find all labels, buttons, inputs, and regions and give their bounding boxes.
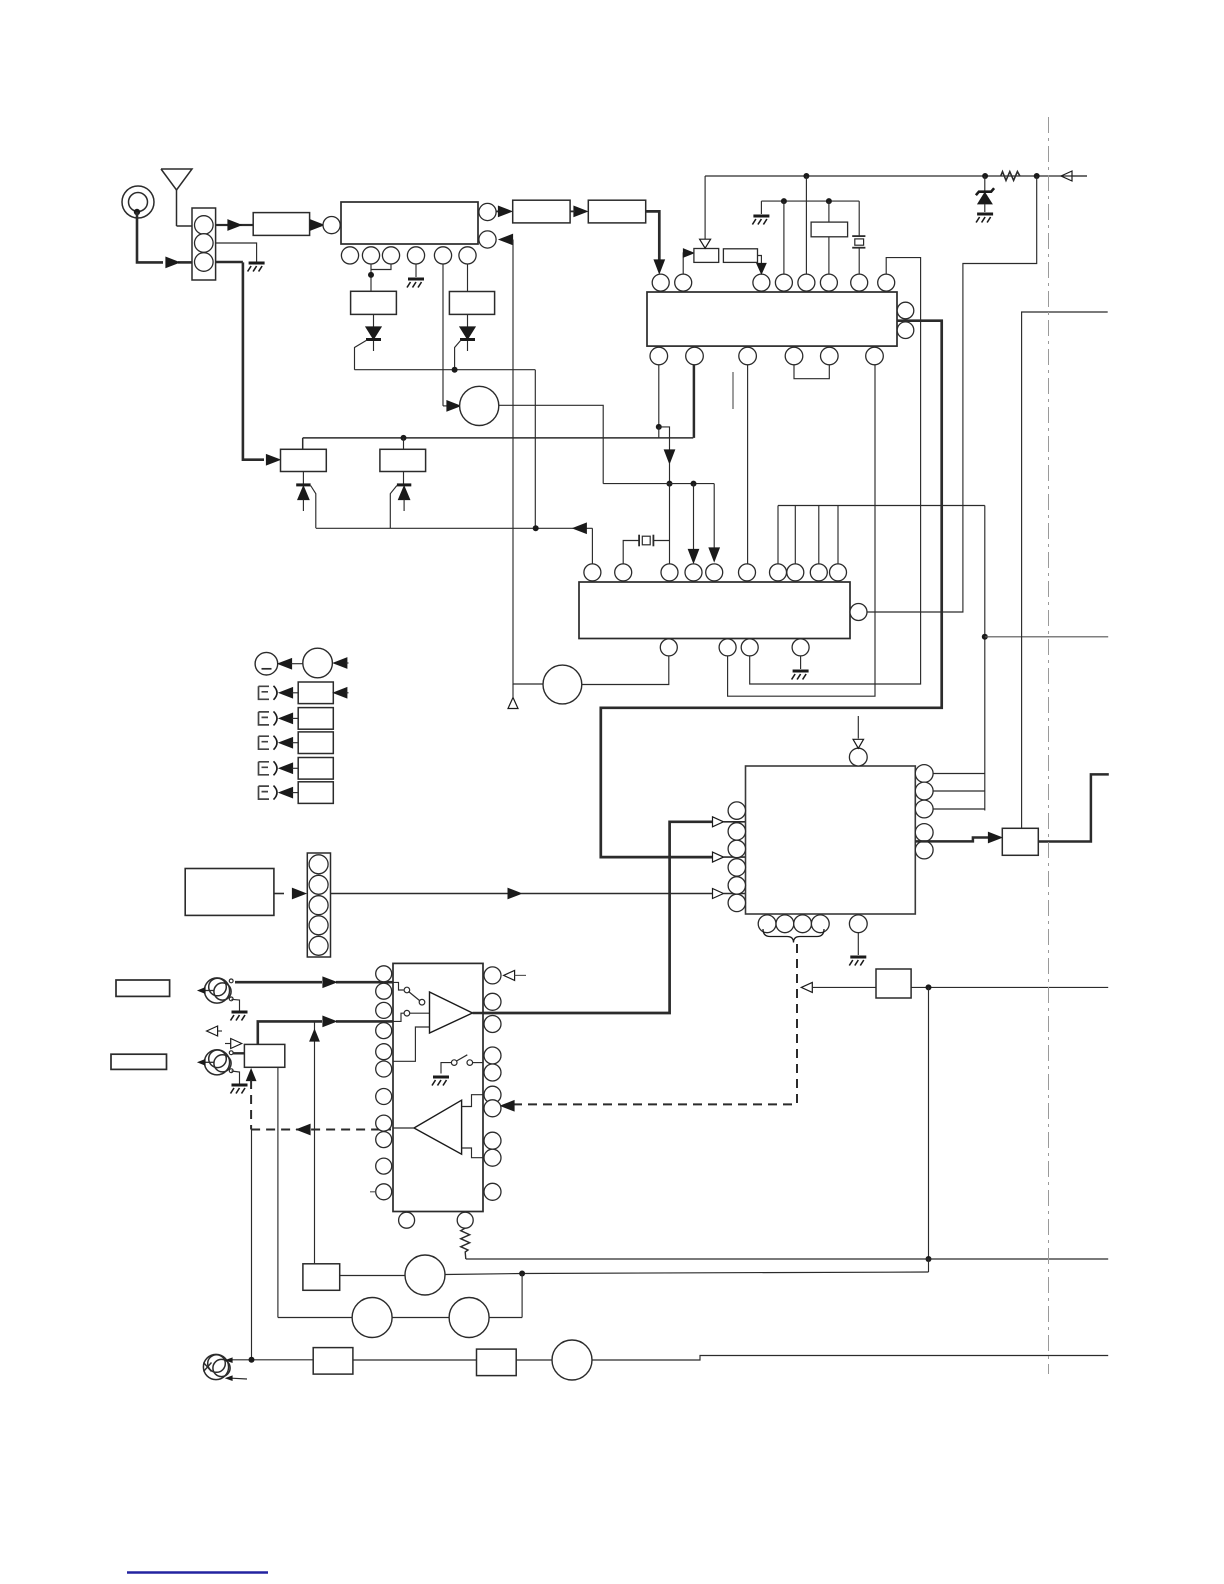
key icon glyph 4 <box>259 762 270 775</box>
wire U2 bottom pin1 down <box>658 365 660 427</box>
U2 top pin 3 <box>753 274 770 291</box>
U4 right pin 3 <box>915 800 933 818</box>
U1 bottom pin 1 <box>341 247 358 264</box>
wire row3 continue <box>521 893 712 895</box>
A2 input wire <box>393 1127 414 1129</box>
wire AGC rail corner down <box>534 370 536 528</box>
U2 top pin 6 <box>820 274 837 291</box>
U2 top pin 4 <box>775 274 792 291</box>
arrowhead into U2 pin1 <box>654 260 664 273</box>
rail2 left leg <box>760 201 762 214</box>
thick wire B9 top to U5 <box>258 1021 322 1044</box>
open arrow marker left <box>207 1026 218 1036</box>
wire dot down to X5 <box>521 1274 523 1318</box>
U5 right pin 8 <box>484 1132 501 1149</box>
U3 right pin <box>850 604 867 621</box>
open arrow power input <box>1061 171 1072 181</box>
arrowhead into U1 pin <box>311 220 324 230</box>
junction dot x659 <box>656 424 662 430</box>
junction dot rail2 a <box>781 198 787 204</box>
system control IC U4 <box>746 766 916 914</box>
wire CN1 pin1 to FL1 <box>216 224 228 226</box>
RCA jack J2 <box>204 978 229 1003</box>
U3 top pin 10 <box>830 564 847 581</box>
U5 left pin 10 <box>376 1158 392 1174</box>
wire power input stub <box>1072 175 1087 177</box>
U5 left pin 6 <box>376 1061 392 1077</box>
wire J1 to CN1 pin3 <box>137 212 163 262</box>
U1 bottom pin 3 <box>382 247 399 264</box>
junction dot rail1 right <box>1034 173 1040 179</box>
U3 top pin 5 <box>706 564 723 581</box>
VD1 diagonal to VT line <box>311 486 316 529</box>
rail y438 into T1 <box>302 438 304 449</box>
arrow into VR1 <box>334 658 347 668</box>
U4 right pin 5 <box>915 841 933 859</box>
U4 right pin 4 <box>915 824 933 842</box>
RCA jack J3 <box>204 1050 229 1075</box>
U2 top pin 8 <box>878 274 895 291</box>
dashed remote line vertical <box>796 944 798 1104</box>
arrow into key icon 4 <box>280 763 293 773</box>
arrowhead into U2 top pin3 <box>757 264 766 274</box>
arrowhead mid row3 <box>508 889 521 899</box>
U4 bottom pin 3 <box>794 915 812 933</box>
RCA jack J5 <box>203 1354 228 1379</box>
arrowhead into T1 <box>267 455 280 465</box>
ceramic filter FL2 <box>351 291 397 314</box>
bus corner down x985 <box>984 506 986 811</box>
A2 upper output step <box>462 1095 484 1107</box>
IF filter FL5 <box>588 200 645 223</box>
offpage triangle marker <box>508 698 518 709</box>
antenna connector CN1 <box>192 208 216 280</box>
resistor R2 <box>461 1228 470 1259</box>
arrow into key icon 5 <box>280 788 293 798</box>
label box L2 <box>111 1054 167 1069</box>
wire CN2 to U4 row3 <box>331 893 510 895</box>
U5 right pin 9 <box>484 1149 501 1166</box>
long wire x1021 supply <box>1022 312 1108 828</box>
D2 gate diagonal <box>455 340 461 370</box>
wire corner to U3 pin5 <box>713 484 715 549</box>
U3 top pin 2 <box>615 564 632 581</box>
ceramic filter FL3 <box>449 292 494 315</box>
ground U3 bottom pin4 <box>800 656 802 669</box>
wire X6 to right edge <box>592 1356 1108 1361</box>
wire buffer return to U1 pin B <box>509 239 513 241</box>
A1 feedback path <box>393 1027 430 1061</box>
crystal Y1 <box>852 235 865 237</box>
arrow into key icon 2 <box>280 713 293 723</box>
U5 left pin 4 <box>376 1023 392 1039</box>
wire CN1 pin2 to ground <box>216 243 257 262</box>
wire B9b output to right edge <box>911 986 1108 988</box>
U2 bottom pin 2 <box>686 347 704 365</box>
long wire U1 pinB buffer vertical x513 <box>513 240 543 685</box>
CN1 pin 2 <box>195 234 214 253</box>
wire B9-col to X4 <box>278 1317 352 1319</box>
filter box FB1 <box>811 222 848 237</box>
A2 lower output step <box>462 1148 484 1158</box>
junction dot IF y483 <box>667 481 673 487</box>
U3 top pin 6 <box>739 564 756 581</box>
wire rail2 to filter FB1 <box>828 201 830 222</box>
arrow row0 <box>279 659 292 669</box>
wire U1 pin3 jog <box>371 264 391 270</box>
small box B9b <box>876 969 911 998</box>
mic box B11 <box>313 1348 353 1375</box>
CN2 pin 2 <box>309 875 328 894</box>
U2 bottom pin 4 <box>785 347 803 365</box>
wire jog to x669 <box>659 427 670 451</box>
U1 bottom pin 2 <box>362 247 379 264</box>
U2 bottom link pins 4-5 <box>794 365 829 379</box>
tuning coil box T1 <box>281 449 327 471</box>
U2 top pin 7 <box>851 274 868 291</box>
U4 left pin 1 <box>728 802 745 819</box>
interface box B8 <box>1002 828 1038 855</box>
U5 left pin 9 <box>376 1132 392 1148</box>
open arrow marker into B9 <box>231 1039 242 1049</box>
RF amp IC U1 <box>341 202 478 244</box>
diode D1 <box>373 314 375 351</box>
CN1 pin 3 <box>195 253 214 272</box>
coax antenna jack J1 <box>122 186 154 218</box>
U3 top pin 7 <box>770 564 787 581</box>
op-amp A1 <box>430 992 473 1033</box>
display unit box B5 <box>185 869 274 916</box>
U5 right pin 10 <box>484 1183 501 1200</box>
U4 left pin 5 <box>728 877 745 894</box>
record box B9 <box>244 1044 284 1067</box>
tape eq box B10 <box>303 1264 340 1291</box>
key switch box K1 <box>298 682 333 704</box>
U2 bottom pin 6 <box>866 347 884 365</box>
arrowhead into VCO <box>447 401 460 411</box>
U4 left pin 6 <box>728 894 745 911</box>
wire X5 to dot col <box>489 1317 522 1319</box>
long vertical x928 <box>928 987 930 1259</box>
U5 right pin 6 <box>484 1086 501 1103</box>
mic box B12 <box>477 1349 517 1376</box>
wire U2 bottom pin3 to U3 pin6 <box>747 365 749 564</box>
CN2 pin 3 <box>309 896 328 915</box>
U3 top pin 8 <box>787 564 804 581</box>
U2 bottom pin 3 <box>739 347 757 365</box>
IF distribution line y483 <box>603 483 714 485</box>
ground wire J2 <box>231 999 239 1010</box>
U5 bottom pin 2 <box>457 1212 473 1228</box>
wire VCO output to PLL <box>499 405 603 483</box>
wire U1 pin2 to FL2 <box>370 264 372 291</box>
U5 left pin 11 <box>376 1184 392 1200</box>
brace under U4 data pins <box>763 929 824 943</box>
wire U4 right pin2 <box>933 790 985 792</box>
ground U1 pin4 <box>408 278 424 281</box>
supply rail1 y176 <box>705 175 1087 177</box>
U1 right pin A <box>479 203 496 220</box>
stub dot to rail y438 <box>658 427 660 438</box>
arrowhead into U3 pin5 <box>709 548 719 561</box>
ground rail2 <box>753 215 769 218</box>
wire X4 to X5 <box>392 1317 449 1319</box>
PLL IC U3 <box>579 582 850 639</box>
wire X2 to U3 bottom pin1 <box>582 656 669 685</box>
zener diode ZD1 <box>984 176 986 192</box>
U5 right pin 3 <box>484 1016 501 1033</box>
bandpass filter FL1 <box>253 213 309 236</box>
arrowhead into U5 right pin <box>501 1101 514 1111</box>
U3 pins7-10 bus verticals <box>777 506 779 565</box>
wire x669 to dot483 <box>669 463 671 484</box>
U5 right pin 1 <box>484 967 501 984</box>
vertical x314 tape amp to U5 <box>314 1021 316 1263</box>
CN2 pin 1 <box>309 855 328 874</box>
wire U3 pin1 to VT line <box>591 528 593 564</box>
thick wire B8 output <box>1038 774 1109 841</box>
crystal Y2 <box>638 535 640 547</box>
rail y438 into T2 <box>403 438 405 449</box>
U3 top pin 1 <box>584 564 601 581</box>
oscillator circle X2 <box>543 665 582 704</box>
diode D2 <box>467 314 469 351</box>
wire B10 to X3 <box>340 1275 405 1277</box>
U4 top pin <box>849 748 867 766</box>
arrowhead FL4 to FL5 <box>574 206 587 216</box>
open arrowhead into U4 row2 <box>713 852 724 862</box>
U5 input2 wire <box>393 1013 404 1021</box>
U3 bottom pin 3 <box>741 639 758 656</box>
U1 bottom pin 6 <box>459 247 476 264</box>
thick wire U4 pins45 to B8 <box>915 838 988 842</box>
wire U3 right pin to supply <box>867 176 1037 612</box>
U4 right pin 1 <box>915 765 933 783</box>
IF filter FL4 <box>513 200 570 223</box>
U5 left pin 2 <box>376 983 392 999</box>
thick bus U2 right to U4 <box>601 321 942 857</box>
volume circle VR1 <box>303 648 333 678</box>
page split dash-dot line <box>1048 117 1050 1374</box>
U4 left pin 3 <box>728 840 745 857</box>
U3 bottom pin 2 <box>719 639 736 656</box>
wire BA2 to U2 top pin3 <box>758 256 762 265</box>
U1 bottom pin 5 <box>434 247 451 264</box>
junction dot rail1 x806 <box>803 173 809 179</box>
wire U1 pin5 to VCO <box>442 264 444 406</box>
D1 gate diagonal <box>355 340 368 370</box>
arrowhead on J2 wire <box>323 977 336 987</box>
arrowhead into FL1 <box>228 220 241 230</box>
arrowhead mid IF wire <box>665 450 675 463</box>
key icon glyph 1 <box>259 686 270 699</box>
wire U1 pin4 to ground <box>415 264 417 277</box>
crystal circuit U3 pin2 <box>623 541 639 565</box>
wire AGC rail y370 <box>355 369 536 371</box>
arrowhead into BA1 <box>684 249 694 257</box>
U5 mute switch S2 <box>451 1060 457 1066</box>
tuning coil box T2 <box>380 449 426 471</box>
wire FB1 to U2 top pin6 <box>828 237 830 274</box>
varactor VD1 <box>302 472 304 485</box>
U4 left pin 4 <box>728 859 745 876</box>
supply rail y438 <box>303 437 694 439</box>
op-amp A2 <box>414 1100 462 1154</box>
U2 right pin B <box>897 322 914 339</box>
ground symbol U3 <box>793 670 809 673</box>
open arrow into B9b <box>801 982 812 992</box>
junction dot rail y438 T2 <box>401 435 407 441</box>
wire FL5 to U2 pin1 (thick) <box>646 211 660 262</box>
U5 bottom pin 1 <box>399 1212 415 1228</box>
motor circle X3 <box>405 1255 445 1295</box>
U5 left pin 7 <box>376 1089 392 1105</box>
display connector CN2 <box>307 853 330 957</box>
junction dot J5 wire <box>249 1357 255 1363</box>
wire J5 to B11 <box>232 1359 314 1361</box>
VD2 diagonal to VT line <box>390 486 397 529</box>
U3 top pin 9 <box>810 564 827 581</box>
arrowhead into CN2 <box>293 889 306 899</box>
wire U4 right pin1 <box>933 773 985 775</box>
key switch box K3 <box>298 732 333 754</box>
motor circle X5 <box>449 1298 489 1338</box>
U1 input pin <box>323 217 340 234</box>
wire Y2 to x669 <box>653 540 669 542</box>
arrow into K1 right <box>334 688 347 698</box>
A1 output wire <box>473 1012 484 1015</box>
junction dot row A <box>519 1271 525 1277</box>
U5 right pin 2 <box>484 993 501 1010</box>
U5 left pin 5 <box>376 1044 392 1060</box>
arrowhead on VT line <box>573 523 586 533</box>
thick wire CN1 pin3 down to T1 <box>216 261 243 264</box>
ground J2 <box>232 1011 248 1014</box>
U2 top pin 2 <box>675 274 692 291</box>
wire U4 right pin3 <box>933 808 985 810</box>
junction dot VT line <box>533 525 539 531</box>
U4 bottom pin 2 <box>776 915 794 933</box>
U2 bottom pin 1 <box>650 347 668 365</box>
U2 bottom pin 5 <box>821 347 839 365</box>
CN1 pin 1 <box>195 216 214 235</box>
ground wire U4 pin5 <box>857 933 859 955</box>
VT tuning line y528 <box>316 527 592 529</box>
antenna ANT1 <box>161 169 192 190</box>
U3 bottom pin 4 <box>792 639 809 656</box>
arrowhead on dashed wire <box>297 1125 310 1135</box>
U5 left pin 3 <box>376 1002 392 1018</box>
junction dot x928 <box>926 984 932 990</box>
thick stub J3 to B9 <box>233 1052 244 1054</box>
U5 input switch S1 <box>393 982 404 990</box>
wire FL1 to U1 <box>310 224 312 226</box>
rail2 right leg to crystal <box>858 201 860 236</box>
VCO oscillator circle X1 <box>460 386 499 425</box>
arrowhead on B9 wire <box>323 1016 336 1026</box>
junction dot U1 pin2/pin3 <box>368 272 374 278</box>
ground wire J3 <box>231 1071 239 1084</box>
thick bus U5 output to U4 <box>483 822 712 1013</box>
vertical x251 to J5 line <box>251 1130 253 1360</box>
CN2 pin 4 <box>309 916 328 935</box>
U2 right pin A <box>897 302 914 319</box>
U2 top pin 5 <box>798 274 815 291</box>
U3 top pin 3 <box>661 564 678 581</box>
U4 bottom pin 4 <box>811 915 829 933</box>
wire rail1 to U2 top pin5 <box>805 176 807 274</box>
wire B11 to B12 <box>353 1359 477 1361</box>
wire into VCO <box>443 405 448 407</box>
wire U3 bottom pin2 path <box>728 365 875 696</box>
short floating segment x733 <box>732 372 734 409</box>
U4 bottom pin 1 <box>758 915 776 933</box>
U5 right pin 4 <box>484 1047 501 1064</box>
bus horizontal y505 <box>778 505 985 507</box>
U5 right pin 5 <box>484 1064 501 1081</box>
U5 left pin 1 <box>376 966 392 982</box>
arrow into key icon 1 <box>280 688 293 698</box>
wire Y1 to U2 top pin7 <box>858 248 860 274</box>
U3 top pin 4 <box>685 564 702 581</box>
key switch box K4 <box>298 758 333 780</box>
supply rail2 y201 <box>761 200 859 202</box>
U2 top pin 1 <box>652 274 669 291</box>
ground U4 <box>850 956 866 959</box>
trimmer box BA2 <box>723 249 757 263</box>
wire U1 right pin A to FL4 <box>496 210 499 212</box>
arrow up into B9 bottom <box>247 1070 256 1081</box>
arrowhead into U1 pin B <box>500 235 513 245</box>
junction dot D2 rail <box>452 367 458 373</box>
audio amplifier IC U5 <box>393 963 483 1211</box>
wire B9 bottom down to X4 <box>277 1067 279 1317</box>
motor circle X6 <box>552 1340 592 1380</box>
open arrow supply into BA1 <box>704 176 706 240</box>
U4 right pin 2 <box>915 782 933 800</box>
arrowhead into B8 <box>989 833 1002 843</box>
junction dot rail1 zener <box>982 173 988 179</box>
U4 bottom pin 5 <box>849 915 867 933</box>
motor circle X4 <box>352 1298 392 1338</box>
ground J3 <box>232 1084 248 1087</box>
arrowhead into FL4 <box>499 206 512 216</box>
open arrowhead into U4 row1 <box>713 817 724 827</box>
wire R2 to right edge <box>466 1258 1108 1260</box>
arrow up on x314 <box>310 1030 319 1041</box>
wire x928 jog <box>928 1259 930 1272</box>
key icon glyph 2 <box>259 712 270 725</box>
open arrowhead into U4 row3 <box>713 889 724 899</box>
U1 right pin B <box>479 231 496 248</box>
wire dot to U3 pin4 <box>693 484 695 551</box>
junction dot rail2 b <box>826 198 832 204</box>
U3 bottom pin 1 <box>660 639 677 656</box>
earphone jack icon row0 <box>255 652 278 675</box>
dashed remote line horizontal <box>513 1103 797 1105</box>
wire y637 to right edge <box>985 636 1108 638</box>
junction dot x928 low <box>926 1256 932 1262</box>
blue footer underline <box>127 1571 268 1573</box>
U1 bottom pin 4 <box>407 247 424 264</box>
arrowhead into CN1 pin3 <box>166 257 179 267</box>
arrowhead into U3 pin4 <box>689 550 699 563</box>
key icon glyph 3 <box>259 736 270 749</box>
wire U1 pin6 to FL3 <box>467 264 469 292</box>
wire B5 to CN2 <box>274 893 284 895</box>
key switch box K2 <box>298 708 333 730</box>
junction dot x985 y637 <box>982 634 988 640</box>
